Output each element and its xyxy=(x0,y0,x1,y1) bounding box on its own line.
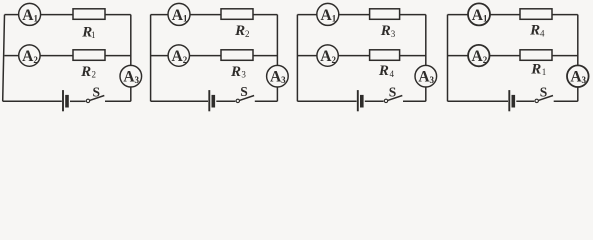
svg-text:R: R xyxy=(530,62,541,78)
svg-text:1: 1 xyxy=(91,30,96,40)
svg-text:A: A xyxy=(172,7,184,24)
wire: circuit 2 branch2 left segment xyxy=(151,55,169,57)
label R1 (circuit 4 bottom) xyxy=(530,62,546,78)
wire: circuit 2 branch2 A2-to-R segment xyxy=(189,55,221,57)
label R3 (circuit 3 top) xyxy=(380,23,396,39)
wire: circuit 1 branch2 R-to-right segment xyxy=(105,55,131,57)
svg-text:R: R xyxy=(378,63,389,79)
label R4 (circuit 3 bottom) xyxy=(378,63,395,79)
switch S (circuit 3): lever arm xyxy=(388,96,403,101)
wire: circuit 1 bottom wire left of battery xyxy=(3,100,62,102)
wire: circuit 2 right vertical top (junction to A3) xyxy=(276,15,278,66)
wire: circuit 3 branch1 left segment xyxy=(297,14,317,16)
wire: circuit 3 right vertical bottom (A3 to bottom wire) xyxy=(425,87,427,102)
resistor R1 (circuit 1 top) xyxy=(73,9,105,19)
svg-text:R: R xyxy=(380,23,391,39)
resistor R1 (circuit 4 bottom) xyxy=(520,50,552,61)
wire: circuit 4 branch1 R-to-right segment xyxy=(552,14,578,16)
label R3 (circuit 2 bottom) xyxy=(230,64,246,80)
svg-text:3: 3 xyxy=(582,75,587,85)
wire: circuit 3 branch1 R-to-right segment xyxy=(400,14,426,16)
svg-text:S: S xyxy=(540,84,548,99)
switch S (circuit 2): pivot circle xyxy=(236,99,239,102)
wire: circuit 4 branch2 left segment xyxy=(448,55,469,57)
wire: circuit 2 branch1 left segment xyxy=(151,14,169,16)
wire: circuit 2 right vertical bottom (A3 to bottom wire) xyxy=(276,87,278,102)
svg-text:A: A xyxy=(471,48,483,65)
wire: circuit 1 branch2 left segment xyxy=(5,55,19,57)
svg-text:S: S xyxy=(93,85,101,100)
svg-text:A: A xyxy=(22,7,34,24)
svg-text:3: 3 xyxy=(241,70,246,80)
battery (circuit 4): short thick plate xyxy=(512,95,516,108)
ammeter A3 (circuit 2) xyxy=(267,65,289,87)
wire: circuit 1 right vertical bottom (A3 to bottom wire) xyxy=(130,87,132,102)
svg-text:1: 1 xyxy=(542,67,547,77)
svg-text:1: 1 xyxy=(34,14,39,24)
resistor R3 (circuit 3 top) xyxy=(370,9,400,19)
battery (circuit 2): short thick plate xyxy=(212,95,216,108)
svg-text:A: A xyxy=(320,48,332,65)
wire: circuit 4 branch1 A1-to-R segment xyxy=(490,14,521,16)
label R2 (circuit 2 top) xyxy=(234,23,249,39)
ammeter A1 (circuit 3) xyxy=(317,3,339,25)
svg-text:2: 2 xyxy=(483,55,488,65)
switch S (circuit 4): pivot circle xyxy=(535,99,538,102)
wire: circuit 4 left vertical bus xyxy=(447,15,449,102)
svg-text:R: R xyxy=(234,23,245,39)
resistor R3 (circuit 2 bottom) xyxy=(221,50,253,61)
svg-text:2: 2 xyxy=(33,55,38,65)
ammeter A3 (circuit 4) xyxy=(567,65,589,87)
battery (circuit 1): short thick plate xyxy=(65,95,69,108)
wire: circuit 2 left vertical bus xyxy=(150,15,152,102)
svg-text:3: 3 xyxy=(391,29,396,39)
wire: circuit 4 bottom wire battery-to-switch xyxy=(516,100,534,102)
wire: circuit 3 bottom wire switch-to-right corner xyxy=(403,100,426,102)
svg-text:3: 3 xyxy=(430,75,435,85)
wire: circuit 4 branch1 left segment xyxy=(448,14,469,16)
battery (circuit 1): long plate xyxy=(62,90,64,111)
ammeter A3 (circuit 3) xyxy=(415,65,437,87)
ammeter A2 (circuit 1) xyxy=(19,45,40,66)
wire: circuit 3 bottom wire left of battery xyxy=(297,100,356,102)
battery (circuit 3): long plate xyxy=(357,90,359,111)
wire: circuit 3 bottom wire battery-to-switch xyxy=(365,100,384,102)
battery (circuit 2): long plate xyxy=(208,90,210,111)
wire: circuit 1 bottom wire switch-to-right corner xyxy=(105,100,131,102)
svg-text:4: 4 xyxy=(540,28,545,38)
svg-text:R: R xyxy=(80,64,91,80)
resistor R4 (circuit 3 bottom) xyxy=(370,50,400,61)
wire: circuit 3 left vertical bus xyxy=(296,15,298,102)
wire: circuit 2 branch1 A1-to-R segment xyxy=(190,14,222,16)
wire: circuit 1 bottom wire battery-to-switch xyxy=(70,100,86,102)
svg-text:1: 1 xyxy=(183,14,188,24)
svg-text:R: R xyxy=(230,64,241,80)
ammeter A2 (circuit 2) xyxy=(168,45,189,66)
battery (circuit 3): short thick plate xyxy=(360,95,364,108)
wire: circuit 1 branch1 left segment xyxy=(5,14,20,16)
wire: circuit 1 right vertical top (junction to A3) xyxy=(130,15,132,66)
wire: circuit 3 branch2 left segment xyxy=(297,55,317,57)
wire: circuit 4 right vertical top (junction to A3) xyxy=(577,15,579,66)
svg-text:A: A xyxy=(22,48,34,65)
wire: circuit 1 left vertical bus xyxy=(3,15,5,102)
svg-text:A: A xyxy=(171,48,183,65)
ammeter A1 (circuit 1) xyxy=(19,3,41,25)
svg-text:2: 2 xyxy=(245,29,250,39)
resistor R4 (circuit 4 top) xyxy=(520,9,552,19)
ammeter A2 (circuit 3) xyxy=(317,45,338,66)
svg-text:A: A xyxy=(320,7,332,24)
label R4 (circuit 4 top) xyxy=(529,23,545,39)
switch S (circuit 4): lever arm xyxy=(538,96,553,101)
svg-text:S: S xyxy=(389,85,397,100)
svg-text:3: 3 xyxy=(135,75,140,85)
svg-text:2: 2 xyxy=(183,55,188,65)
switch S (circuit 1): pivot circle xyxy=(86,99,89,102)
ammeter A1 (circuit 2) xyxy=(168,3,190,25)
resistor R2 (circuit 1 bottom) xyxy=(73,50,105,61)
wire: circuit 3 branch2 R-to-right segment xyxy=(400,55,426,57)
svg-text:4: 4 xyxy=(390,69,395,79)
battery (circuit 4): long plate xyxy=(508,90,510,111)
wire: circuit 1 branch1 A1-to-R segment xyxy=(40,14,73,16)
svg-text:1: 1 xyxy=(332,14,337,24)
wire: circuit 4 branch2 A2-to-R segment xyxy=(489,55,520,57)
wire: circuit 4 branch2 R-to-right segment xyxy=(552,55,578,57)
wire: circuit 2 branch1 R-to-right segment xyxy=(253,14,277,16)
wire: circuit 3 branch2 A2-to-R segment xyxy=(338,55,370,57)
wire: circuit 4 bottom wire left of battery xyxy=(448,100,509,102)
wire: circuit 2 bottom wire switch-to-right corner xyxy=(255,100,278,102)
ammeter A3 (circuit 1) xyxy=(120,65,142,87)
wire: circuit 1 branch1 R-to-right segment xyxy=(105,14,131,16)
label R2 (circuit 1 bottom) xyxy=(80,64,96,80)
wire: circuit 4 bottom wire switch-to-right corner xyxy=(554,100,578,102)
svg-text:S: S xyxy=(240,84,248,99)
svg-text:A: A xyxy=(472,7,484,24)
switch S (circuit 2): lever arm xyxy=(240,96,255,101)
svg-text:3: 3 xyxy=(281,75,286,85)
wire: circuit 3 right vertical top (junction to A3) xyxy=(425,15,427,66)
wire: circuit 1 branch2 A2-to-R segment xyxy=(40,55,73,57)
svg-text:2: 2 xyxy=(92,70,97,80)
wire: circuit 4 right vertical bottom (A3 to bottom wire) xyxy=(577,87,579,102)
wire: circuit 2 branch2 R-to-right segment xyxy=(253,55,277,57)
label R1 (circuit 1 top) xyxy=(81,25,95,41)
wire: circuit 2 bottom wire battery-to-switch xyxy=(216,100,235,102)
svg-text:2: 2 xyxy=(332,55,337,65)
svg-text:1: 1 xyxy=(483,14,488,24)
wire: circuit 2 bottom wire left of battery xyxy=(151,100,209,102)
switch S (circuit 3): pivot circle xyxy=(384,99,387,102)
ammeter A2 (circuit 4) xyxy=(468,45,489,66)
switch S (circuit 1): lever arm xyxy=(90,96,105,101)
wire: circuit 3 branch1 A1-to-R segment xyxy=(338,14,369,16)
ammeter A1 (circuit 4) xyxy=(468,3,490,25)
resistor R2 (circuit 2 top) xyxy=(221,9,253,19)
svg-text:R: R xyxy=(529,23,540,39)
